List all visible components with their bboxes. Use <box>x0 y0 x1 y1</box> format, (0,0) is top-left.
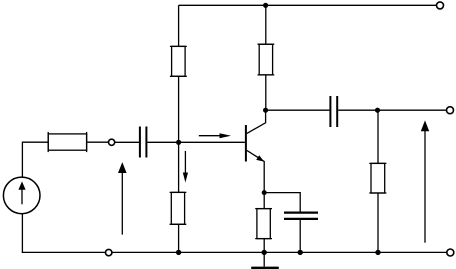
resistor R1 <box>170 46 187 76</box>
node base junction <box>176 140 181 145</box>
node emitter junction <box>262 190 267 195</box>
wire C2 to output junction <box>338 109 377 111</box>
capacitor C2 (output coupling) <box>330 96 337 127</box>
current source I1 <box>3 177 40 214</box>
terminal output <box>447 107 454 114</box>
transistor Q1 <box>246 110 266 192</box>
wire R1 top lead <box>178 5 180 46</box>
terminal input bottom <box>106 249 112 255</box>
wire source bottom lead <box>21 214 23 253</box>
wire collector to C2 <box>266 109 330 111</box>
terminal input top <box>109 139 115 145</box>
wire top supply rail <box>179 4 437 6</box>
wire R3 bottom lead <box>178 224 180 252</box>
wire base line C1 to transistor <box>147 141 245 143</box>
wire bottom rail right segment <box>112 251 447 253</box>
arrow divider current (down) <box>183 151 188 183</box>
capacitor C1 <box>140 127 147 158</box>
terminal top-right supply <box>437 2 444 9</box>
wire R5 bottom lead <box>377 193 379 252</box>
terminal bottom-right <box>447 249 454 256</box>
node output junction <box>375 108 380 113</box>
wire R4 bottom lead <box>263 239 265 253</box>
wire R2 bottom lead <box>265 75 267 110</box>
node R3 bottom rail junction <box>176 250 181 255</box>
resistor R2 <box>258 44 275 75</box>
wire terminal to C1 <box>115 141 139 143</box>
wire C3 bottom lead <box>299 220 301 252</box>
resistor R5 (load) <box>369 163 386 193</box>
wire source top lead <box>22 142 48 177</box>
node collector junction <box>263 108 268 113</box>
arrow output voltage Ua (up) <box>421 120 429 242</box>
wire R2 top lead <box>265 5 267 44</box>
wire R4 top lead <box>263 193 265 209</box>
arrow base current (right) <box>199 133 231 138</box>
resistor R4 (emitter) <box>255 209 272 239</box>
wire R5 top lead <box>377 110 379 163</box>
ground <box>251 252 279 268</box>
resistor RS (series, horizontal) <box>48 132 86 152</box>
resistor R3 <box>170 192 187 224</box>
node top rail junction <box>263 3 268 8</box>
wire R1 bottom to R3 top (through base node) <box>178 76 180 192</box>
node R5 bottom rail junction <box>375 250 380 255</box>
wire emitter to C3 <box>264 193 300 212</box>
wire output junction to terminal <box>378 109 447 111</box>
wire RS to input terminal <box>87 141 109 143</box>
capacitor C3 (bypass) <box>284 213 318 219</box>
arrow input voltage Ue (up) <box>118 162 127 235</box>
wire bottom rail left segment <box>22 251 106 253</box>
node R4 bottom rail junction <box>262 250 267 255</box>
node C3 bottom rail junction <box>298 250 303 255</box>
